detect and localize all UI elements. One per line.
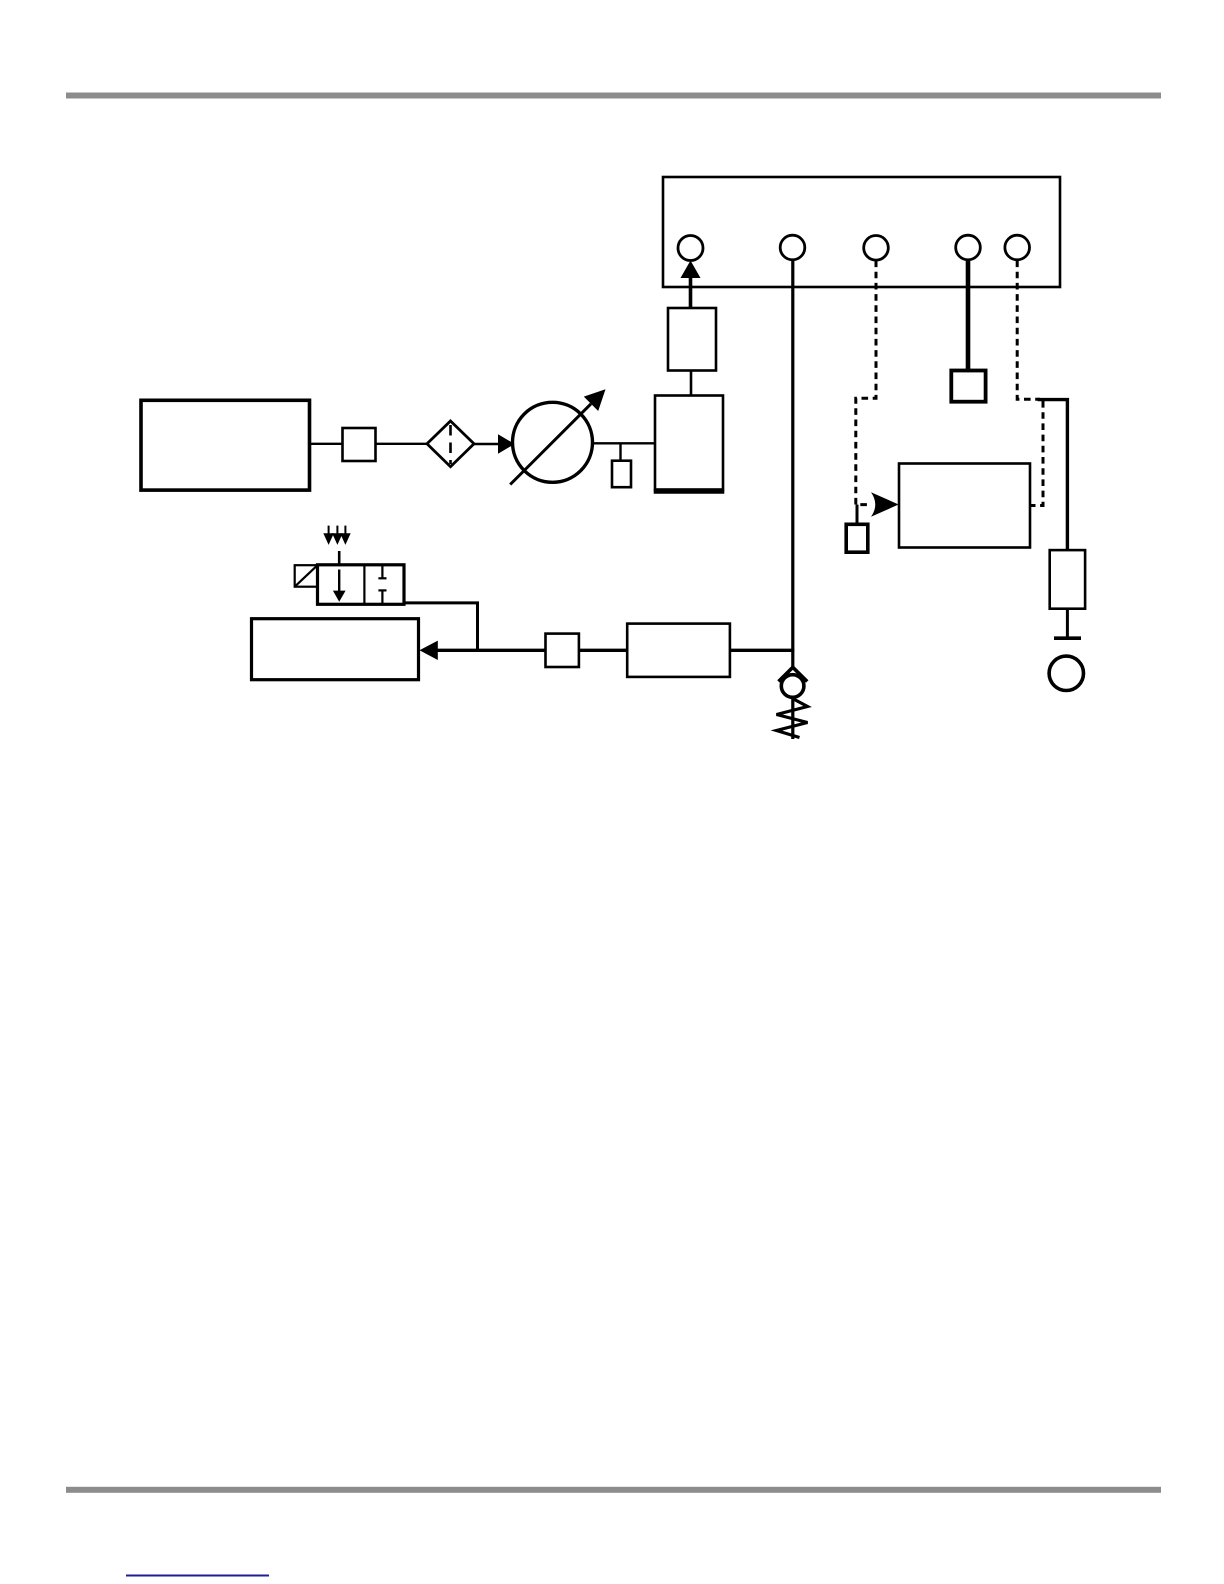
- valve cell divider: [363, 565, 365, 605]
- pilot node stem: [856, 505, 859, 525]
- port circle 3: [864, 236, 889, 261]
- pilot node rect: [846, 524, 868, 552]
- regulator circle: [513, 402, 593, 482]
- gauge rect: [612, 461, 631, 488]
- wire from valve to main line: [404, 603, 478, 650]
- signal terminator square: [951, 371, 985, 402]
- inline square (shut-off): [343, 428, 376, 461]
- port circle 1: [678, 236, 703, 261]
- manual override arrows (three): [324, 526, 350, 544]
- pilot stem into valve: [338, 551, 341, 565]
- port circle 5: [1005, 235, 1030, 260]
- solenoid box: [295, 565, 318, 587]
- wire square to filter: [376, 443, 428, 445]
- valve blocked port T top: [381, 566, 383, 578]
- compressor rect: [141, 400, 310, 490]
- check valve spring: [777, 699, 808, 738]
- pilot dashed drop to control block: [1031, 401, 1043, 506]
- inline rect on main wire: [627, 624, 730, 677]
- regulator diagonal adjust line: [510, 404, 591, 485]
- filter dashed centerline: [449, 425, 452, 464]
- pilot dashed line from port 3: [856, 261, 876, 505]
- dryer unit rect: [655, 396, 723, 490]
- dryer unit thick bottom edge: [654, 489, 725, 494]
- port circle 2: [780, 235, 805, 260]
- signal wire from port 4: [966, 260, 971, 372]
- valve blocked port T bottom: [381, 590, 383, 603]
- valve flow arrow (left cell): [338, 570, 340, 593]
- tailpipe end bar: [1054, 636, 1081, 640]
- control block rect: [899, 464, 1030, 548]
- gauge stub: [619, 443, 621, 461]
- flow arrowhead into regulator: [498, 434, 515, 453]
- exhaust port circle: [1049, 656, 1083, 690]
- inline square on main wire: [546, 634, 579, 667]
- riser wire from port 2: [791, 260, 794, 667]
- exhaust wire to muffler: [1038, 400, 1068, 550]
- valve body: [318, 565, 405, 605]
- top horizontal rule: [66, 93, 1161, 99]
- pilot arrowhead into control block: [871, 492, 899, 517]
- port circle 4: [956, 235, 981, 260]
- main bottom wire: [437, 649, 794, 652]
- wire fitting to dryer unit: [690, 371, 693, 396]
- actuator rect: [252, 619, 419, 680]
- arrowhead up into port 1: [681, 261, 701, 279]
- bottom horizontal rule: [66, 1487, 1161, 1493]
- supply wire into port 1: [689, 272, 693, 308]
- wire compressor to inline square: [310, 443, 343, 445]
- manifold block: [663, 177, 1060, 287]
- check valve ball: [781, 675, 804, 698]
- arrowhead into actuator: [420, 641, 438, 660]
- wire filter to regulator: [474, 443, 499, 445]
- fitting rect under port 1: [668, 308, 716, 371]
- solenoid diagonal: [295, 565, 318, 587]
- muffler rect: [1050, 550, 1085, 609]
- muffler tailpipe: [1066, 609, 1069, 637]
- check valve seat chevron: [779, 667, 808, 681]
- pilot dashed line from port 5: [1017, 261, 1040, 400]
- regulator diagonal arrowhead: [584, 389, 606, 411]
- filter diamond: [427, 421, 474, 467]
- wire regulator to dryer: [593, 442, 656, 444]
- check valve stem: [791, 697, 794, 739]
- footnote separator line: [126, 1575, 269, 1577]
